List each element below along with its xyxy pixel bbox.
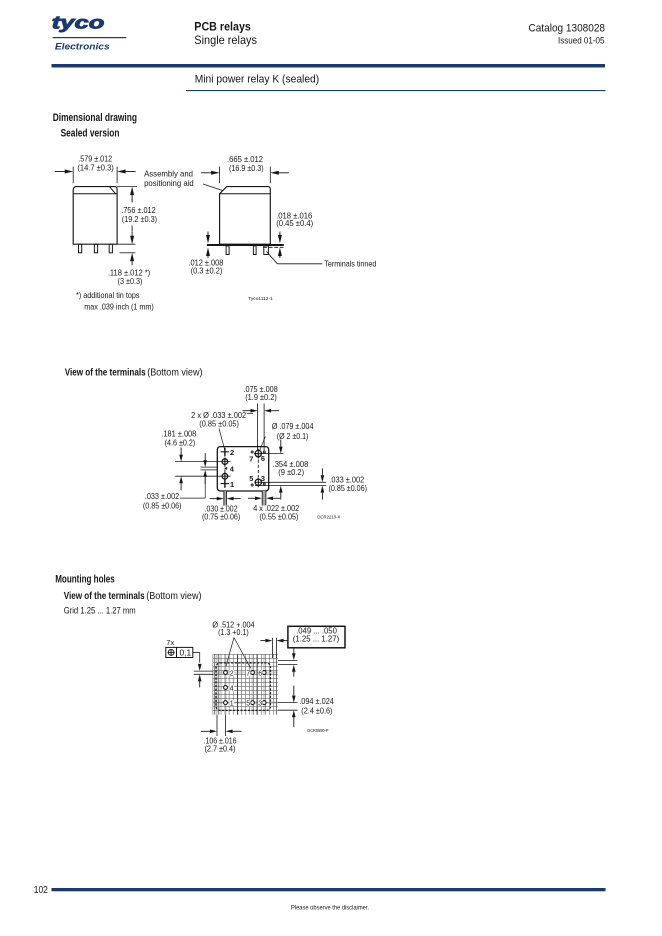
svg-text:7x: 7x	[166, 638, 174, 647]
svg-text:Ø .079 ±.004: Ø .079 ±.004	[272, 421, 314, 431]
svg-text:(0.45 ±0.4): (0.45 ±0.4)	[276, 218, 313, 228]
svg-text:Grid 1.25 ... 1.27 mm: Grid 1.25 ... 1.27 mm	[64, 605, 136, 615]
svg-text:Issued 01-05: Issued 01-05	[558, 35, 605, 46]
svg-text:6: 6	[258, 670, 262, 677]
svg-text:1: 1	[230, 700, 234, 707]
svg-text:7: 7	[246, 670, 250, 677]
svg-text:5: 5	[249, 474, 253, 483]
svg-text:3: 3	[258, 700, 262, 707]
svg-text:1: 1	[230, 480, 234, 489]
svg-text:Terminals tinned: Terminals tinned	[324, 258, 376, 268]
svg-text:Sealed version: Sealed version	[61, 128, 120, 140]
svg-text:Electronics: Electronics	[55, 41, 110, 51]
svg-text:View of the terminals: View of the terminals	[65, 368, 146, 379]
svg-text:(3 ±0.3): (3 ±0.3)	[118, 276, 143, 286]
svg-text:Catalog 1308028: Catalog 1308028	[529, 23, 606, 35]
svg-text:(Ø 2 ±0.1): (Ø 2 ±0.1)	[277, 431, 309, 441]
svg-text:(14.7 ±0.3): (14.7 ±0.3)	[77, 163, 114, 173]
svg-text:*) additional tin tops: *) additional tin tops	[76, 290, 140, 300]
svg-text:(19.2 ±0.3): (19.2 ±0.3)	[122, 214, 157, 224]
svg-text:positioning aid: positioning aid	[144, 178, 194, 188]
svg-text:4: 4	[230, 685, 234, 692]
svg-text:Please observe the disclaimer.: Please observe the disclaimer.	[291, 906, 369, 912]
svg-text:(0.3 ±0.2): (0.3 ±0.2)	[191, 266, 223, 276]
svg-text:0,1: 0,1	[180, 648, 192, 657]
svg-text:Mounting holes: Mounting holes	[55, 574, 114, 586]
svg-text:Dimensional drawing: Dimensional drawing	[53, 112, 137, 124]
svg-text:(Bottom view): (Bottom view)	[146, 591, 201, 602]
svg-text:5: 5	[246, 700, 250, 707]
svg-text:View of the terminals: View of the terminals	[64, 591, 145, 602]
svg-text:(0.85 ±0.06): (0.85 ±0.06)	[143, 500, 182, 510]
svg-text:(1.9 ±0.2): (1.9 ±0.2)	[245, 392, 277, 402]
svg-text:4: 4	[230, 464, 235, 473]
svg-text:(1.3 +0.1): (1.3 +0.1)	[218, 627, 249, 637]
svg-text:(9 ±0.2): (9 ±0.2)	[278, 467, 304, 477]
svg-text:102: 102	[34, 885, 48, 896]
svg-text:Tyco1112-1: Tyco1112-1	[248, 296, 273, 301]
svg-text:(1.25 ... 1.27): (1.25 ... 1.27)	[293, 634, 340, 644]
svg-text:(0.85 ±0.05): (0.85 ±0.05)	[199, 419, 239, 429]
svg-text:max .039 inch (1 mm): max .039 inch (1 mm)	[84, 302, 154, 312]
svg-text:2: 2	[230, 448, 234, 457]
svg-text:2: 2	[230, 670, 234, 677]
svg-text:(4.6 ±0.2): (4.6 ±0.2)	[165, 438, 196, 448]
svg-text:tyco: tyco	[52, 12, 105, 32]
svg-text:(0.55 ±0.05): (0.55 ±0.05)	[259, 512, 298, 522]
svg-text:(Bottom view): (Bottom view)	[147, 368, 202, 379]
svg-text:(0.75 ±0.06): (0.75 ±0.06)	[202, 512, 240, 522]
svg-text:DCR0580-P: DCR0580-P	[307, 728, 328, 733]
svg-text:Single relays: Single relays	[194, 33, 257, 47]
svg-text:(16.9 ±0.3): (16.9 ±0.3)	[229, 163, 264, 173]
svg-text:(2.7 ±0.4): (2.7 ±0.4)	[205, 743, 236, 753]
svg-text:6: 6	[261, 454, 265, 463]
svg-text:DCR2210-X: DCR2210-X	[317, 514, 340, 519]
svg-text:Mini power relay K (sealed): Mini power relay K (sealed)	[195, 74, 320, 86]
svg-text:7: 7	[249, 455, 253, 464]
svg-text:Assembly and: Assembly and	[144, 168, 193, 178]
svg-text:(0.85 ±0.06): (0.85 ±0.06)	[329, 483, 368, 493]
svg-text:3: 3	[261, 474, 265, 483]
svg-text:PCB relays: PCB relays	[194, 19, 251, 33]
svg-text:(2.4 ±0.6): (2.4 ±0.6)	[301, 705, 332, 715]
